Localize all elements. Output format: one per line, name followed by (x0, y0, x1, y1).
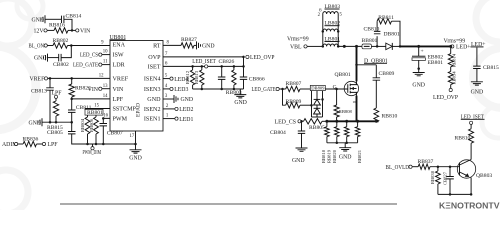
svg-text:GND: GND (147, 97, 161, 103)
svg-text:VREF: VREF (29, 77, 45, 83)
wire (102, 84, 110, 89)
svg-text:11: 11 (103, 60, 108, 65)
svg-text:ISEN2: ISEN2 (144, 107, 161, 113)
wire (336, 89, 338, 121)
wire (392, 45, 400, 47)
svg-text:RB827: RB827 (181, 37, 197, 43)
wire (61, 46, 71, 58)
svg-text:10: 10 (103, 50, 108, 55)
junction (242, 65, 245, 68)
transistor QB803 (457, 160, 492, 195)
svg-text:LED_CS: LED_CS (275, 119, 297, 125)
svg-text:QB801: QB801 (335, 72, 351, 78)
resistor RB801 (85, 110, 103, 117)
inductor LB803 (323, 4, 340, 14)
svg-text:13: 13 (103, 84, 108, 89)
junction (343, 45, 358, 48)
node LED_GATE (252, 87, 280, 93)
svg-text:GND: GND (292, 158, 305, 164)
capacitor CB810 (364, 26, 381, 33)
junction (49, 121, 73, 124)
junction (355, 64, 358, 67)
svg-text:Vrms=99: Vrms=99 (287, 36, 309, 42)
svg-text:RB821: RB821 (357, 149, 362, 163)
node LED2 (163, 104, 193, 113)
ground (34, 54, 48, 62)
svg-text:LDR: LDR (113, 63, 126, 69)
resistor RB836 (23, 137, 39, 147)
pin 6 (319, 9, 322, 14)
svg-text:3: 3 (165, 94, 168, 99)
inductor LB801 (323, 36, 340, 46)
svg-text:8: 8 (167, 41, 170, 46)
wire (64, 19, 72, 30)
wire (412, 166, 418, 168)
svg-text:QB803: QB803 (476, 173, 492, 179)
wire (376, 21, 378, 31)
wire (476, 48, 478, 67)
svg-text:ISEN3: ISEN3 (144, 87, 161, 93)
junction (49, 77, 52, 80)
junction (70, 77, 73, 80)
resistor RB809 (286, 99, 302, 108)
node LPF (42, 142, 58, 148)
wire (102, 50, 110, 55)
wire (55, 116, 57, 122)
svg-text:5: 5 (165, 74, 168, 79)
wire (279, 88, 286, 90)
pin 5 (340, 13, 343, 18)
wire (193, 88, 244, 90)
svg-text:BL_OVLD: BL_OVLD (386, 165, 410, 171)
pin 17 EPAD (130, 131, 137, 145)
wire (85, 104, 110, 109)
svg-text:9: 9 (101, 41, 104, 46)
resistor RB805 (304, 119, 326, 131)
svg-text:RB816: RB816 (49, 23, 65, 29)
node ADIM (2, 142, 18, 148)
resistor RB806 (89, 117, 99, 134)
node D_QB801 (364, 58, 388, 64)
wire (356, 46, 358, 81)
IC pin names (113, 43, 162, 123)
junction (449, 193, 473, 196)
wire (102, 60, 110, 65)
capacitor CB805 (68, 132, 76, 134)
wire (400, 45, 451, 47)
svg-text:ISW: ISW (113, 53, 124, 59)
wire (233, 66, 235, 89)
node LED_ISET (461, 114, 485, 124)
wire (45, 18, 61, 20)
svg-text:LED4: LED4 (174, 77, 188, 83)
svg-text:CB814: CB814 (66, 14, 82, 20)
wire (470, 124, 472, 128)
op-amp U1 UB801 (110, 35, 164, 131)
capacitor CB813 (31, 88, 54, 95)
junction (70, 98, 73, 101)
svg-text:RT: RT (153, 44, 161, 50)
svg-text:RB814: RB814 (451, 53, 456, 67)
node VIN (88, 87, 102, 93)
node LED+ (451, 45, 471, 51)
svg-text:GND: GND (181, 97, 194, 103)
watermark line (60, 203, 397, 205)
wire (68, 41, 111, 46)
wire (476, 69, 478, 82)
wire (300, 104, 312, 106)
ground (292, 148, 308, 164)
junction (102, 117, 105, 120)
svg-text:GND: GND (471, 90, 484, 96)
resistor RB813 (194, 70, 204, 85)
resistor RB821 (355, 121, 362, 163)
capacitor CB802 (53, 54, 69, 68)
svg-text:ENA: ENA (113, 43, 126, 49)
junction (201, 88, 236, 91)
svg-text:RB807: RB807 (286, 81, 302, 87)
svg-text:PWM: PWM (113, 117, 128, 123)
wire (449, 167, 451, 195)
svg-text:GND: GND (202, 44, 215, 50)
svg-text:LED1: LED1 (179, 117, 193, 123)
svg-text:CB809: CB809 (379, 71, 395, 77)
node Vrms (287, 36, 309, 42)
svg-text:RB811: RB811 (378, 15, 394, 21)
svg-text:12: 12 (99, 74, 104, 79)
resistor RB837 (418, 159, 434, 169)
wire (48, 57, 59, 59)
resistor RB822 (69, 84, 91, 97)
svg-text:RB837: RB837 (418, 159, 434, 165)
wire (322, 14, 324, 46)
ground (234, 89, 247, 106)
svg-text:SSTCMP: SSTCMP (113, 107, 137, 113)
wire (450, 85, 452, 89)
wire (163, 52, 244, 57)
node VIN (76, 29, 91, 35)
wire (71, 122, 73, 131)
resistor RB811 (377, 15, 394, 24)
wire (307, 45, 323, 47)
svg-text:GND: GND (28, 120, 41, 126)
svg-text:EPAD: EPAD (136, 103, 142, 117)
node VREF (29, 77, 47, 83)
resistor RB854 (448, 71, 456, 85)
resistor RB804 (80, 117, 90, 134)
junction (417, 67, 420, 70)
wire (437, 167, 439, 195)
ground (339, 143, 352, 161)
wire (438, 193, 471, 195)
svg-text:RB818: RB818 (321, 149, 326, 163)
capacitor EB802 EB801 (412, 46, 443, 66)
svg-text:RB810: RB810 (455, 136, 471, 142)
svg-text:GND: GND (129, 156, 142, 162)
junction (449, 45, 452, 48)
wire (102, 126, 104, 144)
resistor RB802 (53, 38, 69, 48)
svg-text:GND: GND (34, 56, 47, 62)
svg-text:EB801: EB801 (428, 60, 444, 66)
wire (192, 66, 194, 89)
svg-text:GND: GND (339, 154, 352, 160)
wire (418, 60, 420, 72)
node LED_ISET (192, 59, 216, 68)
wire (42, 121, 72, 123)
ground (197, 41, 215, 49)
svg-text:DB801: DB801 (384, 32, 400, 38)
wire (71, 112, 73, 122)
wire (47, 45, 53, 47)
svg-text:LED2: LED2 (179, 107, 193, 113)
junction (437, 165, 452, 168)
capacitor CB809 (373, 71, 395, 80)
resistor RB815 (53, 101, 58, 116)
wire (49, 90, 51, 122)
svg-text:RB810: RB810 (382, 113, 398, 119)
wire (470, 143, 472, 159)
label EPAD (136, 103, 142, 117)
svg-text:CB804: CB804 (270, 130, 286, 136)
resistor RB807 (286, 81, 302, 92)
wire (18, 143, 23, 145)
wire (371, 45, 385, 47)
ground (28, 118, 42, 126)
wire (72, 94, 110, 99)
wire (221, 66, 223, 89)
svg-text:CB813: CB813 (31, 89, 47, 95)
svg-text:+: + (421, 48, 424, 54)
wire (68, 29, 76, 31)
wire (37, 143, 43, 145)
capacitor CB866 (240, 76, 265, 82)
junction (191, 65, 235, 68)
wire (326, 120, 379, 122)
ferrite bead BB801 (362, 38, 378, 49)
wire (392, 21, 401, 46)
node LED1 (163, 114, 193, 123)
diode DB801 (384, 32, 400, 50)
wire (357, 64, 377, 66)
inductor LB802 (323, 21, 340, 32)
svg-text:GND: GND (412, 83, 425, 89)
wire (430, 166, 460, 168)
svg-text:RB801: RB801 (87, 110, 103, 116)
svg-text:Vrms=99: Vrms=99 (444, 38, 466, 44)
capacitor CB826 (218, 59, 235, 79)
svg-text:6: 6 (165, 61, 168, 66)
svg-text:2: 2 (166, 104, 169, 109)
svg-text:RB813: RB813 (194, 70, 199, 84)
svg-text:ISEN1: ISEN1 (144, 117, 161, 123)
wire (375, 80, 377, 108)
node 12V (34, 29, 48, 35)
wire (338, 45, 362, 47)
watermark text (439, 200, 500, 210)
wire (163, 61, 244, 66)
wire (47, 29, 54, 31)
svg-text:VBL: VBL (290, 45, 302, 51)
node LPF (52, 90, 63, 98)
wire (49, 78, 51, 87)
resistor RB819 (327, 121, 340, 163)
svg-text:LED_OVP: LED_OVP (433, 95, 458, 101)
svg-text:LED_ISET: LED_ISET (192, 59, 216, 65)
diode DB809 (310, 85, 325, 117)
svg-text:LED3: LED3 (174, 87, 188, 93)
wire (103, 114, 110, 124)
svg-text:LED_GATE: LED_GATE (73, 63, 98, 69)
capacitor CB807 (100, 124, 123, 137)
junction (71, 29, 74, 32)
wire (95, 115, 97, 144)
node Vrms (444, 38, 466, 44)
ground (129, 144, 142, 162)
svg-text:RB806: RB806 (89, 118, 94, 132)
wire (48, 74, 110, 79)
node LED3 (163, 84, 188, 93)
svg-text:LPF: LPF (48, 142, 59, 148)
svg-text:CB805: CB805 (47, 130, 63, 136)
svg-text:LPF: LPF (113, 97, 124, 103)
wire (337, 14, 339, 46)
svg-text:ISEN4: ISEN4 (144, 77, 161, 83)
svg-text:2: 2 (318, 13, 321, 18)
svg-text:RB854: RB854 (451, 71, 456, 85)
label oo (353, 99, 358, 104)
junction (336, 142, 348, 145)
svg-text:CB826: CB826 (219, 59, 235, 65)
svg-text:CB802: CB802 (53, 62, 69, 68)
wire (201, 66, 203, 89)
ground (163, 94, 193, 103)
resistor RB827 (181, 37, 197, 48)
wire (71, 97, 73, 110)
junction (376, 45, 401, 48)
wire (194, 44, 197, 46)
svg-text:CB866: CB866 (249, 76, 265, 82)
node LED4 (163, 74, 188, 83)
svg-text:VIN: VIN (80, 29, 91, 35)
node VBL (290, 45, 307, 51)
svg-text:LED_CS: LED_CS (80, 53, 98, 59)
svg-text:RB820: RB820 (332, 149, 337, 163)
wire (243, 57, 245, 89)
ground (31, 15, 45, 23)
svg-text:5: 5 (340, 13, 343, 18)
wire (72, 134, 136, 144)
label RB815 (47, 125, 63, 131)
wire (375, 65, 377, 78)
wire (301, 121, 303, 148)
capacitor CB827 (442, 171, 454, 185)
resistor RB814 (448, 53, 456, 67)
wire (301, 120, 303, 122)
svg-text:CB815: CB815 (483, 65, 499, 71)
wire (163, 41, 181, 46)
svg-text:RB838: RB838 (430, 170, 435, 184)
junction (281, 88, 284, 91)
svg-text:RB802: RB802 (53, 38, 69, 44)
svg-text:GND: GND (234, 100, 247, 106)
svg-text:OVP: OVP (148, 55, 161, 61)
svg-text:VREF: VREF (113, 77, 129, 83)
wire (325, 88, 348, 90)
svg-text:15: 15 (94, 104, 99, 109)
svg-text:VIN: VIN (88, 87, 99, 93)
junction (335, 88, 338, 91)
resistor RB803 (226, 70, 242, 96)
wire (356, 96, 358, 122)
svg-text:LED_OVP: LED_OVP (250, 55, 275, 61)
junction (300, 120, 303, 123)
svg-text:CB827: CB827 (442, 171, 447, 185)
node LED_OVP (246, 55, 275, 61)
svg-text:12V: 12V (34, 29, 45, 35)
svg-text:RB805: RB805 (309, 125, 325, 131)
wire (450, 67, 452, 72)
wire (87, 115, 89, 144)
wire (71, 78, 73, 84)
junction (242, 56, 245, 59)
transistor QB801 (333, 72, 359, 96)
capacitor CB814 (62, 14, 82, 24)
svg-text:4: 4 (165, 84, 168, 89)
svg-text:VIN: VIN (113, 87, 124, 93)
junction (322, 30, 340, 48)
svg-text:14: 14 (103, 94, 108, 99)
ground (471, 82, 484, 96)
svg-text:RB819: RB819 (327, 149, 332, 163)
node LED_OVP (433, 88, 458, 101)
node LED_GATE (73, 63, 102, 69)
wire (376, 36, 378, 46)
svg-text:1: 1 (166, 114, 169, 119)
svg-text:GND: GND (31, 17, 44, 23)
node LED+ (471, 42, 486, 48)
resistor RB818 (321, 121, 329, 163)
svg-text:BB801: BB801 (362, 38, 378, 44)
svg-text:RB808: RB808 (339, 109, 353, 114)
capacitor CB811 (68, 105, 92, 113)
wire (283, 89, 286, 105)
resistor RB808 (334, 105, 353, 117)
wire (450, 46, 452, 53)
junction (325, 120, 377, 123)
resistor RB810 (374, 108, 398, 122)
svg-text:PWM_DIM: PWM_DIM (83, 150, 102, 156)
wire (327, 142, 358, 144)
junction (417, 45, 420, 48)
node PWM_DIM (83, 144, 102, 156)
capacitor CB815 (473, 65, 499, 71)
capacitor CB804 (270, 130, 305, 136)
wire (55, 98, 57, 101)
resistor RB838 (430, 170, 440, 184)
svg-text:RB804: RB804 (80, 118, 85, 132)
pin 2 (318, 13, 321, 18)
wire (322, 120, 326, 122)
resistor RB812 (185, 70, 195, 85)
svg-text:BL_ON: BL_ON (29, 44, 45, 50)
label CB805 (47, 130, 63, 136)
resistor RB820 (332, 121, 349, 163)
node LED_CS (275, 119, 302, 125)
svg-text:LED+: LED+ (456, 45, 471, 51)
node LED_CS (80, 53, 102, 59)
svg-text:17: 17 (130, 134, 135, 139)
